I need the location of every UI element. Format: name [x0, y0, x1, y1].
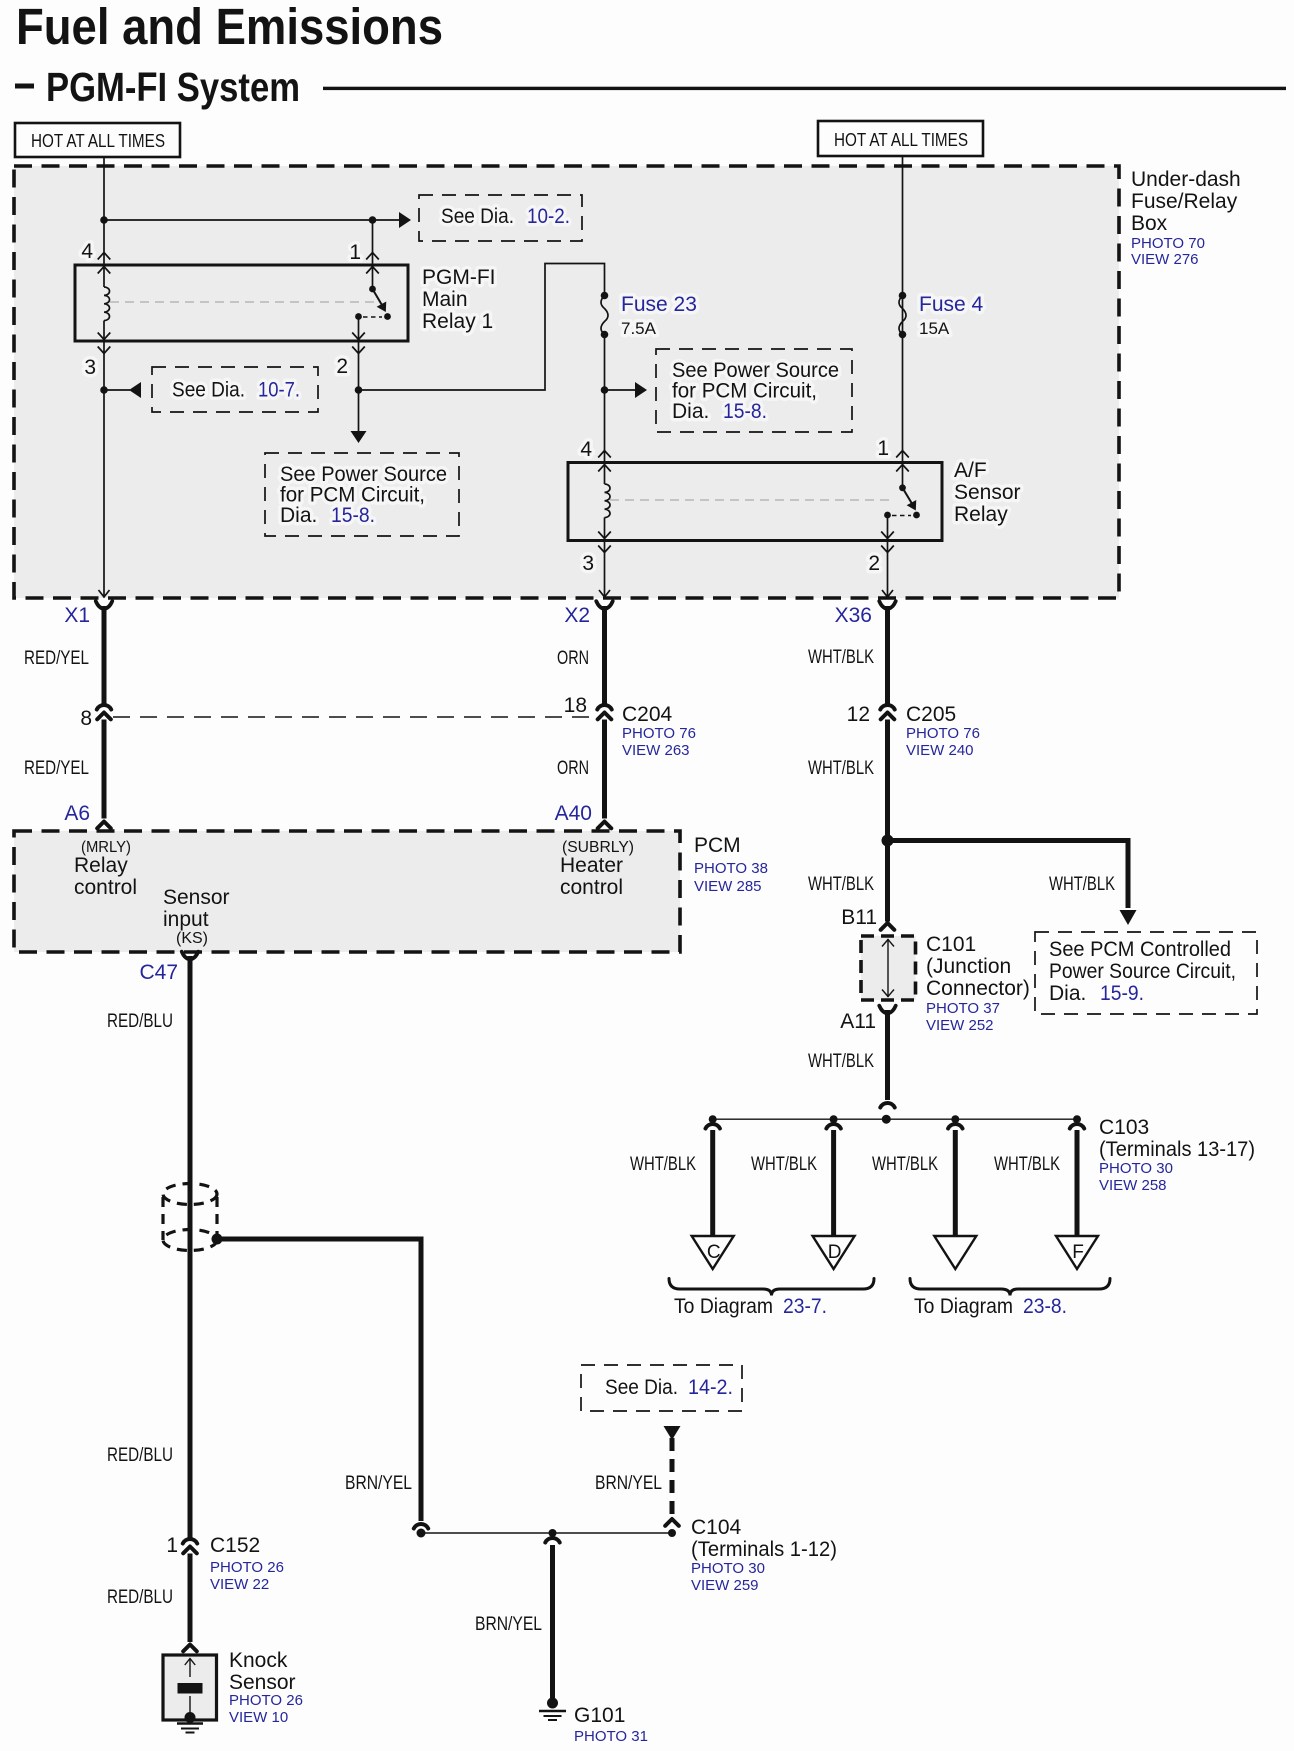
A/F pin 4 chevrons: [598, 451, 611, 458]
suppressor tap dot: [212, 1234, 223, 1245]
A/F switch arm: [903, 488, 913, 505]
connector halves at row 712: [880, 705, 894, 710]
knock sensor element: [178, 1683, 203, 1694]
svg-text:C204: C204: [622, 703, 673, 726]
connector cup X36: [879, 601, 895, 609]
ground bus line: [713, 1118, 1077, 1120]
svg-text:PHOTO 26: PHOTO 26: [229, 1692, 303, 1709]
svg-text:D: D: [828, 1242, 842, 1263]
wire X2 lower segment: [602, 720, 607, 819]
coil link dashed line: [110, 301, 377, 303]
svg-text:PHOTO 38: PHOTO 38: [694, 860, 768, 877]
connector halves at row 712: [97, 705, 111, 710]
knock sensor internal wire lower: [189, 1696, 191, 1717]
svg-text:PHOTO 76: PHOTO 76: [622, 725, 696, 742]
svg-text:Power Source Circuit,: Power Source Circuit,: [1049, 960, 1236, 983]
svg-text:VIEW 10: VIEW 10: [229, 1709, 288, 1726]
wire HOT right down to A/F relay pin 1: [902, 156, 904, 487]
branch wire right to arrow: [888, 841, 1129, 909]
pin 1 chevrons: [366, 253, 379, 260]
A/F relay coil: [605, 484, 611, 518]
left frown at BRN/YEL drop: [414, 1524, 428, 1529]
pin 2 wire inside: [358, 317, 360, 342]
svg-text:C104: C104: [691, 1516, 742, 1539]
wire HOT left to relay pin 4: [103, 157, 105, 287]
svg-text:Dia.: Dia.: [672, 400, 709, 423]
svg-text:VIEW 252: VIEW 252: [926, 1017, 994, 1034]
wire through suppressor down to C152: [188, 1185, 193, 1539]
svg-text:C205: C205: [906, 703, 956, 726]
connector cup X1: [96, 601, 112, 609]
bus junction dot: [830, 1115, 838, 1123]
A/F pin 2 wire: [887, 515, 889, 541]
svg-text:10-2.: 10-2.: [527, 205, 570, 228]
wire X2 down: [602, 606, 607, 705]
svg-text:A40: A40: [555, 802, 592, 825]
C103 bus node dot: [882, 1115, 891, 1124]
svg-text:15-9.: 15-9.: [1100, 982, 1144, 1005]
svg-text:See Dia.: See Dia.: [441, 205, 514, 228]
A/F pin 2 chevrons: [881, 532, 894, 539]
B11 male chevron: [881, 923, 895, 930]
svg-text:See PCM Controlled: See PCM Controlled: [1049, 938, 1231, 961]
svg-text:To Diagram: To Diagram: [914, 1295, 1013, 1318]
A40 male chevron: [598, 822, 612, 829]
middle junction dot: [549, 1529, 557, 1537]
border exit arrow X2: [599, 590, 610, 597]
svg-text:F: F: [1072, 1242, 1084, 1263]
svg-text:15-8.: 15-8.: [723, 400, 767, 423]
svg-text:C152: C152: [210, 1534, 260, 1557]
svg-text:(Junction: (Junction: [926, 955, 1011, 978]
svg-text:Knock: Knock: [229, 1649, 288, 1672]
knock sensor case ground dot: [185, 1712, 196, 1723]
ground wire blank: [948, 1124, 962, 1129]
svg-text:PGM-FI: PGM-FI: [422, 266, 496, 289]
brace To Diagram 23-8: [910, 1279, 1110, 1296]
svg-text:VIEW 285: VIEW 285: [694, 878, 762, 895]
node at top of pin 4 wire: [100, 216, 108, 224]
svg-text:A6: A6: [64, 802, 90, 825]
bus junction dot: [709, 1115, 717, 1123]
svg-text:C: C: [707, 1242, 721, 1263]
knock sensor box: [163, 1655, 217, 1720]
C47 cup: [182, 952, 198, 960]
wire to G101: [550, 1545, 555, 1699]
svg-text:Fuse/Relay: Fuse/Relay: [1131, 190, 1238, 213]
relay A/F Sensor Relay box: [568, 463, 942, 541]
wire C152 to knock sensor: [188, 1554, 193, 1643]
svg-text:RED/YEL: RED/YEL: [24, 648, 89, 669]
svg-text:X1: X1: [64, 604, 90, 627]
subtitle rule: [323, 87, 1286, 90]
svg-text:BRN/YEL: BRN/YEL: [475, 1614, 542, 1635]
HOT AT ALL TIMES box right: [818, 121, 983, 156]
connector halves at row 712: [597, 705, 611, 710]
svg-text:4: 4: [81, 240, 93, 263]
svg-text:WHT/BLK: WHT/BLK: [630, 1154, 696, 1175]
wire node to See Dia 10-7 arrow: [104, 389, 130, 391]
svg-text:Fuse 4: Fuse 4: [919, 293, 984, 316]
fuse 23: [601, 292, 609, 300]
ground wire F: [1070, 1124, 1084, 1129]
relay switch dashed link: [363, 316, 382, 318]
wire A11 down to bus: [885, 1010, 890, 1100]
svg-text:Box: Box: [1131, 212, 1168, 235]
svg-text:WHT/BLK: WHT/BLK: [808, 758, 874, 779]
svg-text:Relay: Relay: [954, 503, 1008, 526]
svg-text:3: 3: [84, 356, 96, 379]
ground wire D: [826, 1124, 840, 1129]
border exit arrow X36: [882, 590, 893, 597]
svg-text:Sensor: Sensor: [229, 1671, 296, 1694]
wire pin2 node right and up to fuse 23: [359, 264, 605, 391]
svg-text:Fuel and Emissions: Fuel and Emissions: [16, 0, 443, 55]
A/F switch dashed link: [892, 515, 911, 517]
branch node dot: [882, 835, 894, 847]
A6 male chevron: [97, 822, 111, 829]
knock sensor ground hatching: [177, 1722, 203, 1724]
svg-text:15-8.: 15-8.: [331, 504, 375, 527]
wire See Dia 10-2 node down to relay pin 1: [372, 220, 374, 289]
svg-text:PCM: PCM: [694, 834, 741, 857]
svg-text:Sensor: Sensor: [954, 481, 1021, 504]
See Power Source mid reference box: [656, 349, 852, 432]
middle frown to G101: [545, 1538, 559, 1543]
svg-text:WHT/BLK: WHT/BLK: [994, 1154, 1060, 1175]
svg-text:X36: X36: [835, 604, 872, 627]
svg-text:VIEW 276: VIEW 276: [1131, 251, 1199, 268]
svg-text:C47: C47: [139, 961, 178, 984]
relay PGM-FI Main Relay 1 box: [75, 265, 408, 341]
svg-text:VIEW 240: VIEW 240: [906, 742, 974, 759]
noise suppressor cylinder: [163, 1184, 217, 1205]
svg-text:RED/YEL: RED/YEL: [24, 758, 89, 779]
A/F pin 1 chevrons: [896, 451, 909, 458]
See Dia 14-2 reference box: [581, 1365, 742, 1411]
knock sensor connector chevron: [183, 1645, 197, 1652]
svg-text:23-8.: 23-8.: [1023, 1295, 1067, 1318]
relay coil: [104, 287, 110, 321]
svg-text:1: 1: [349, 241, 361, 264]
wire C47 down to suppressor: [188, 956, 193, 1185]
knock sensor internal arrow: [185, 1659, 195, 1666]
C104 node dot: [668, 1529, 676, 1537]
svg-text:PHOTO 70: PHOTO 70: [1131, 235, 1205, 252]
node on pin 3 wire: [100, 386, 108, 394]
svg-text:PHOTO 30: PHOTO 30: [1099, 1160, 1173, 1177]
relay switch arm: [373, 289, 383, 306]
svg-text:C103: C103: [1099, 1116, 1149, 1139]
svg-text:A11: A11: [840, 1010, 876, 1033]
node below pin 2: [355, 386, 363, 394]
brace To Diagram 23-7: [669, 1279, 874, 1296]
svg-text:X2: X2: [564, 604, 590, 627]
wire X1 lower segment: [102, 720, 107, 819]
wire fuse 23 down to A/F relay pin 4: [604, 335, 606, 485]
svg-text:See Dia.: See Dia.: [172, 379, 245, 402]
A/F switch common dot: [899, 484, 906, 491]
wire node down arrow to See Power Source left box: [358, 390, 360, 432]
svg-text:1: 1: [166, 1534, 178, 1557]
svg-text:7.5A: 7.5A: [621, 319, 657, 338]
subtitle dash: [15, 84, 34, 89]
svg-text:PHOTO 31: PHOTO 31: [574, 1728, 648, 1745]
See PCM Controlled Power Source reference box: [1035, 932, 1257, 1014]
bus junction dot: [951, 1115, 959, 1123]
svg-text:HOT AT ALL TIMES: HOT AT ALL TIMES: [834, 130, 968, 150]
A11 cup: [879, 1006, 895, 1014]
wire pin 2 down to node: [358, 341, 360, 390]
svg-text:WHT/BLK: WHT/BLK: [808, 647, 874, 668]
pin 3 chevrons: [98, 333, 111, 340]
A/F pin 3 wire: [604, 518, 606, 541]
svg-text:(Terminals 13-17): (Terminals 13-17): [1099, 1138, 1255, 1161]
svg-text:RED/BLU: RED/BLU: [107, 1011, 173, 1032]
C152 connector halves: [183, 1539, 197, 1544]
node below fuse 23: [601, 386, 609, 394]
svg-text:(Terminals 1-12): (Terminals 1-12): [691, 1538, 837, 1561]
svg-text:Sensor: Sensor: [163, 886, 230, 909]
svg-text:VIEW 259: VIEW 259: [691, 1577, 759, 1594]
svg-text:12: 12: [847, 703, 870, 726]
svg-text:WHT/BLK: WHT/BLK: [751, 1154, 817, 1175]
svg-text:1: 1: [877, 437, 889, 460]
arrow from See Dia 14-2: [664, 1426, 681, 1440]
wire suppressor tap to BRN/YEL drop: [217, 1239, 421, 1521]
svg-text:Dia.: Dia.: [1049, 982, 1086, 1005]
relay switch contact dots: [384, 313, 391, 320]
svg-text:WHT/BLK: WHT/BLK: [1049, 874, 1115, 895]
X36 wire to branch node: [885, 836, 890, 922]
svg-text:RED/BLU: RED/BLU: [107, 1587, 173, 1608]
C104 male chevron: [665, 1519, 679, 1526]
pin 4 chevrons: [98, 253, 111, 260]
wire X36 down: [885, 606, 890, 705]
ground triangle F: [1056, 1236, 1098, 1269]
ground wire C: [706, 1124, 720, 1129]
svg-text:control: control: [560, 876, 623, 899]
pin 3 wire inside: [103, 321, 105, 342]
svg-text:Fuse 23: Fuse 23: [621, 293, 697, 316]
svg-text:WHT/BLK: WHT/BLK: [872, 1154, 938, 1175]
ground triangle D: [813, 1236, 855, 1269]
dashed BRN/YEL wire to C104: [670, 1438, 675, 1516]
svg-text:VIEW 258: VIEW 258: [1099, 1177, 1167, 1194]
svg-text:Under-dash: Under-dash: [1131, 168, 1241, 191]
svg-text:RED/BLU: RED/BLU: [107, 1445, 173, 1466]
svg-text:input: input: [163, 908, 209, 931]
svg-text:WHT/BLK: WHT/BLK: [808, 874, 874, 895]
svg-text:15A: 15A: [919, 319, 950, 338]
A/F coil link dashed line: [610, 499, 890, 501]
svg-text:(KS): (KS): [176, 930, 208, 947]
svg-text:G101: G101: [574, 1704, 625, 1727]
svg-text:Connector): Connector): [926, 977, 1030, 1000]
svg-text:4: 4: [580, 438, 592, 461]
left junction dot: [417, 1529, 426, 1538]
svg-text:control: control: [74, 876, 137, 899]
See Power Source left reference box: [265, 453, 459, 536]
connector cup X2: [596, 601, 612, 609]
svg-text:BRN/YEL: BRN/YEL: [345, 1473, 412, 1494]
svg-text:VIEW 263: VIEW 263: [622, 742, 690, 759]
svg-text:23-7.: 23-7.: [783, 1295, 827, 1318]
A/F switch contact dots: [913, 512, 920, 519]
svg-text:2: 2: [868, 552, 880, 575]
See Dia 10-2 reference box: [419, 195, 582, 241]
wire pin 3 down to X1 exit: [103, 341, 105, 597]
C101 internal arrow: [887, 939, 889, 997]
svg-text:B11: B11: [841, 906, 877, 929]
svg-text:Relay 1: Relay 1: [422, 310, 493, 333]
C103 frown: [880, 1103, 894, 1108]
wire node to See Dia 10-2 arrow: [104, 219, 399, 221]
svg-text:C101: C101: [926, 933, 976, 956]
G101 ground hatching: [539, 1710, 566, 1712]
junction connector C101 box: [861, 936, 916, 1000]
svg-text:PHOTO 26: PHOTO 26: [210, 1559, 284, 1576]
svg-text:Relay: Relay: [74, 854, 128, 877]
wire A/F pin 3 to X2 exit: [604, 541, 606, 597]
pin 2 chevrons: [352, 333, 365, 340]
svg-text:To Diagram: To Diagram: [674, 1295, 773, 1318]
svg-text:2: 2: [336, 355, 348, 378]
svg-text:14-2.: 14-2.: [688, 1376, 733, 1399]
svg-text:ORN: ORN: [557, 758, 589, 779]
svg-text:Main: Main: [422, 288, 468, 311]
svg-text:PHOTO 37: PHOTO 37: [926, 1000, 1000, 1017]
See Dia 10-7 reference box: [152, 367, 318, 412]
ground triangle blank: [934, 1236, 976, 1269]
wire X1 down: [102, 606, 107, 705]
border exit arrow X1: [99, 590, 110, 597]
wire A/F pin 2 to X36 exit: [887, 541, 889, 597]
svg-text:PGM-FI System: PGM-FI System: [46, 64, 300, 110]
ground triangle C: [692, 1236, 734, 1269]
junction bus line at 1533: [421, 1532, 672, 1534]
svg-text:A/F: A/F: [954, 459, 987, 482]
fuse 4: [899, 292, 907, 300]
bus junction dot: [1073, 1115, 1081, 1123]
wire X36 lower segment: [885, 720, 890, 837]
svg-text:PHOTO 76: PHOTO 76: [906, 725, 980, 742]
svg-text:PHOTO 30: PHOTO 30: [691, 1560, 765, 1577]
svg-text:10-7.: 10-7.: [258, 379, 300, 402]
PCM box: [14, 831, 680, 952]
A/F pin 3 chevrons: [598, 532, 611, 539]
C204 dashed pairing line: [113, 716, 596, 718]
arrow to See Power Source mid box: [605, 389, 636, 391]
svg-text:HOT AT ALL TIMES: HOT AT ALL TIMES: [31, 131, 165, 151]
svg-text:WHT/BLK: WHT/BLK: [808, 1051, 874, 1072]
svg-text:ORN: ORN: [557, 648, 589, 669]
relay switch common dot: [369, 286, 376, 293]
svg-text:BRN/YEL: BRN/YEL: [595, 1473, 662, 1494]
svg-text:See Dia.: See Dia.: [605, 1376, 678, 1399]
svg-text:3: 3: [582, 552, 594, 575]
under-dash fuse/relay box: [14, 166, 1119, 598]
svg-text:VIEW 22: VIEW 22: [210, 1576, 269, 1593]
svg-text:8: 8: [80, 707, 92, 730]
G101 ground dot: [547, 1698, 558, 1709]
svg-text:Dia.: Dia.: [280, 504, 317, 527]
HOT AT ALL TIMES box left: [15, 123, 180, 157]
svg-text:18: 18: [564, 694, 587, 717]
svg-text:Heater: Heater: [560, 854, 623, 877]
